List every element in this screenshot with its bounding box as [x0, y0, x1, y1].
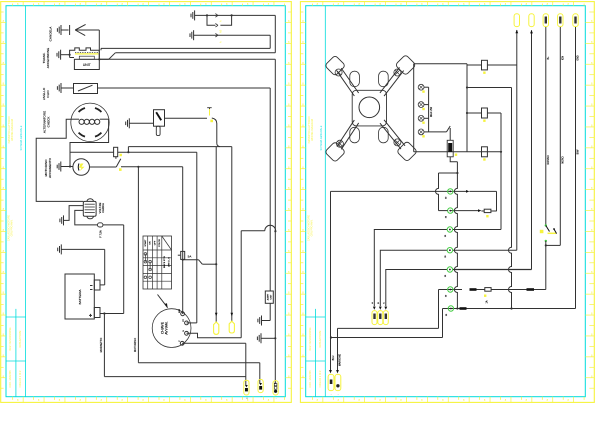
svg-text:MAX 2W: MAX 2W — [429, 106, 433, 117]
svg-text:5A: 5A — [188, 255, 192, 259]
svg-text:ON: ON — [150, 241, 152, 245]
svg-text:F 7.5A: F 7.5A — [100, 230, 103, 238]
svg-text:ALERT: ALERT — [266, 293, 269, 300]
svg-text:REV. DESCRIZIONE: REV. DESCRIZIONE — [9, 327, 12, 351]
svg-text:COD. 1AB2345: COD. 1AB2345 — [309, 370, 312, 388]
svg-text:GRUPPO AVV.: GRUPPO AVV. — [11, 219, 14, 236]
svg-text:WIRING DIAGRAM: WIRING DIAGRAM — [11, 119, 14, 141]
svg-text:ROSSO: ROSSO — [547, 155, 550, 164]
svg-text:BLU: BLU — [332, 355, 335, 360]
svg-text:MOTORINO: MOTORINO — [133, 338, 137, 352]
svg-text:CARICA: CARICA — [101, 203, 105, 213]
svg-text:MARRONE: MARRONE — [339, 353, 342, 366]
svg-text:SCHEMA GENERALE: SCHEMA GENERALE — [20, 125, 23, 150]
svg-text:ACCENSIONE: ACCENSIONE — [46, 48, 50, 68]
svg-text:DATA APPROV.: DATA APPROV. — [319, 330, 322, 348]
svg-text:DATA APPROV.: DATA APPROV. — [19, 330, 22, 348]
svg-text:FOGLIO 1 DI 2: FOGLIO 1 DI 2 — [19, 370, 22, 387]
svg-text:B/W B ST G: B/W B ST G — [164, 256, 166, 268]
svg-text:GND: GND — [577, 55, 580, 61]
svg-text:B/W: B/W — [179, 309, 181, 313]
svg-text:L/W 5 L G: L/W 5 L G — [169, 257, 171, 267]
svg-text:CANDELA: CANDELA — [48, 26, 52, 42]
svg-text:AVVIAM.: AVVIAM. — [165, 321, 169, 334]
svg-text:COD. 1AB2345: COD. 1AB2345 — [9, 370, 12, 388]
svg-text:GRUPPO AVV.: GRUPPO AVV. — [310, 219, 313, 236]
svg-text:UNIT: UNIT — [270, 294, 272, 299]
svg-text:CHECK: CHECK — [46, 116, 50, 128]
svg-text:REV. DESCRIZIONE: REV. DESCRIZIONE — [309, 327, 312, 351]
svg-text:OFF: OFF — [154, 240, 156, 245]
svg-text:WIRING DIAGRAM: WIRING DIAGRAM — [311, 119, 314, 141]
svg-text:MORSETTO: MORSETTO — [99, 338, 103, 353]
svg-text:1A: 1A — [486, 300, 489, 303]
svg-text:UNIT: UNIT — [83, 63, 91, 67]
svg-text:OLIO: OLIO — [46, 90, 50, 98]
svg-text:NERO: NERO — [561, 156, 564, 163]
svg-text:AB: AB — [220, 29, 223, 33]
svg-text:IGN: IGN — [561, 56, 564, 61]
svg-text:START: START — [144, 239, 147, 247]
svg-text:FOGLIO 1 DI 2: FOGLIO 1 DI 2 — [319, 370, 322, 387]
svg-text:SCHEMA GENERALE: SCHEMA GENERALE — [320, 125, 323, 150]
svg-text:BATTERIA: BATTERIA — [78, 289, 82, 305]
svg-text:AVVIAMENTO: AVVIAMENTO — [48, 157, 52, 178]
svg-text:B/W: B/W — [577, 149, 580, 154]
svg-text:COLOR: COLOR — [159, 239, 161, 247]
